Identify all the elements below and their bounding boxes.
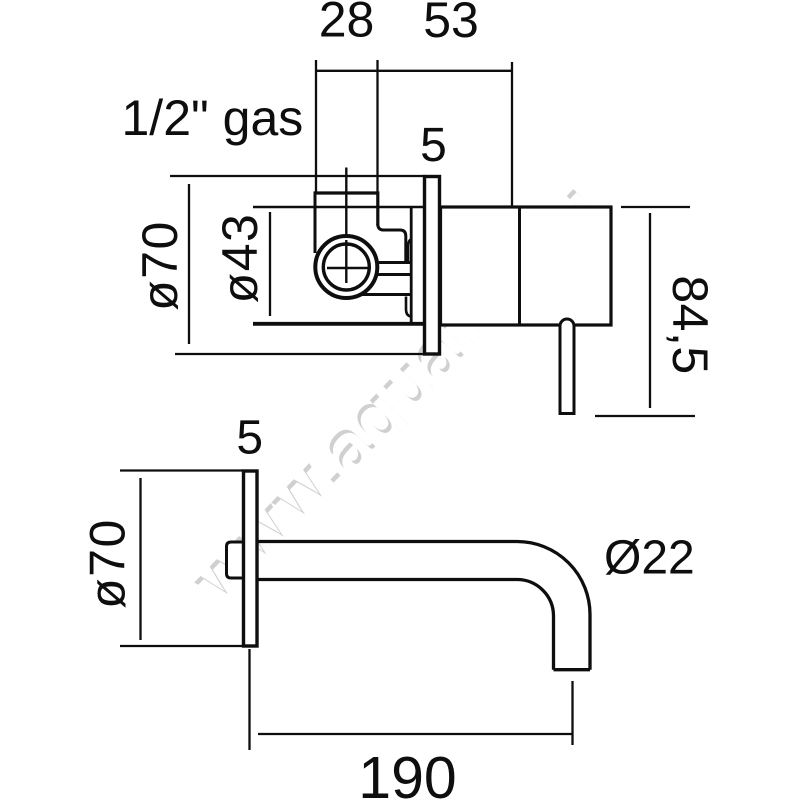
spout tube bottom end — [554, 668, 591, 671]
label ø43 — [212, 213, 268, 304]
cartridge inner circle — [323, 244, 369, 290]
dimension ø70 top extension line (spout flange) — [120, 469, 243, 471]
dimension 190 left extension line — [248, 649, 250, 750]
dimension 28 and 53 shared dimension line — [316, 70, 512, 72]
spout wall flange — [244, 471, 258, 646]
dimension ø70 bottom extension line (spout flange) — [120, 645, 243, 647]
dimension ø43 vertical dimension line — [269, 212, 271, 316]
svg-text:ø70: ø70 — [132, 220, 188, 311]
extension line shared 28/53 (x=377.5) — [376, 60, 378, 193]
dimension ø43 top extension line / cartridge top line — [253, 206, 424, 208]
mounting plate lower tab — [406, 297, 412, 317]
dimension ø70 vertical dimension line (spout) — [139, 478, 141, 640]
dimension 84,5 bottom extension line — [595, 415, 695, 417]
label 84,5 — [662, 275, 718, 374]
dimension 190 dimension line — [258, 733, 573, 735]
dimension ø70 vertical dimension line — [188, 184, 190, 344]
handle lever — [560, 319, 574, 414]
svg-text:5: 5 — [236, 412, 263, 465]
svg-text:ø43: ø43 — [212, 213, 268, 304]
spout wall-side tail stub — [227, 542, 246, 578]
svg-text:84,5: 84,5 — [662, 275, 718, 374]
extension line right of 53 (x=512) — [511, 62, 513, 206]
spout tube outer edge — [257, 542, 590, 670]
svg-text:53: 53 — [423, 0, 479, 48]
dimension 84,5 vertical dimension line — [649, 213, 651, 408]
cartridge housing top and right edge — [314, 193, 378, 226]
cartridge centerline vertical — [345, 168, 347, 284]
cartridge housing left edge — [314, 192, 317, 254]
cartridge crosshair vertical (inside circle) — [345, 240, 347, 283]
cartridge rod top edge — [368, 261, 411, 264]
watermark www.aquamir.ru — [175, 167, 618, 622]
cartridge rod bottom edge — [368, 273, 411, 276]
cartridge outer circle — [315, 236, 377, 298]
svg-text:1/2" gas: 1/2" gas — [122, 90, 304, 146]
dimension ø70 top extension line (flange top) — [170, 175, 425, 177]
dimension ø70 bottom extension line (flange bottom) — [175, 353, 425, 355]
label ø70 (spout flange) — [80, 518, 136, 609]
svg-text:Ø22: Ø22 — [604, 532, 695, 585]
extension line left of 28 (x=316) — [315, 60, 317, 193]
dimension 190 right extension line — [571, 681, 573, 745]
mixer body — [441, 207, 612, 325]
mixer body division line — [518, 207, 521, 325]
dimension ø43 bottom extension line / cartridge bottom line — [253, 322, 424, 326]
svg-text:ø70: ø70 — [80, 518, 136, 609]
spout tube inner edge — [257, 580, 554, 670]
cartridge neck step to mounting plate — [378, 224, 406, 263]
label ø70 (top) — [132, 220, 188, 311]
wall flange (top drawing) — [425, 177, 440, 355]
dimension 84,5 top extension line — [621, 206, 690, 208]
svg-text:190: 190 — [358, 745, 456, 800]
svg-text:5: 5 — [420, 119, 447, 172]
upper plate tab — [408, 240, 411, 263]
svg-text:28: 28 — [319, 0, 375, 48]
mounting plate left edge — [410, 207, 413, 324]
cartridge crosshair horizontal — [327, 267, 368, 269]
cartridge shoulder line — [358, 293, 411, 296]
